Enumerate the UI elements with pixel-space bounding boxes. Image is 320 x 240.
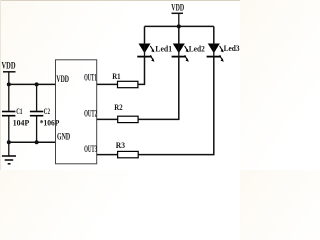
resistor R1 body bbox=[118, 81, 138, 87]
wire rail to Led1 anode bbox=[144, 26, 146, 43]
wire ground rail to IC GND pin bbox=[9, 141, 56, 143]
wire top VDD rail bbox=[145, 25, 214, 27]
svg-text:OUT2: OUT2 bbox=[84, 108, 97, 118]
wire through Led1 bbox=[144, 44, 146, 58]
wire OUT2 to R2 bbox=[97, 118, 118, 120]
svg-text:C1: C1 bbox=[16, 106, 22, 116]
page top edge line bbox=[0, 0, 240, 1]
node junction at C2 bottom bbox=[35, 140, 39, 144]
svg-text:*106P: *106P bbox=[40, 118, 60, 128]
power symbol VDD (top) bbox=[171, 3, 184, 27]
svg-text:VDD: VDD bbox=[56, 74, 69, 84]
svg-text:104P: 104P bbox=[13, 118, 29, 128]
wire C2 top lead bbox=[36, 84, 38, 110]
node junction at C1 top bbox=[7, 82, 11, 86]
Led1 emission arrow 2 bbox=[150, 55, 153, 60]
Led3 emission arrow 1 bbox=[220, 46, 223, 51]
capacitor C2 bbox=[30, 106, 60, 128]
wire OUT3 to R3 bbox=[97, 154, 118, 156]
LED Led3 cathode bar bbox=[207, 56, 221, 58]
ground bbox=[2, 142, 16, 164]
capacitor C1 bbox=[2, 106, 29, 128]
svg-text:R1: R1 bbox=[112, 71, 120, 81]
wire rail to Led2 anode bbox=[178, 26, 180, 43]
svg-text:OUT1: OUT1 bbox=[84, 73, 97, 83]
LED Led2 bbox=[172, 44, 205, 62]
capacitor C2 plates bbox=[30, 111, 43, 113]
ground stem bbox=[8, 142, 10, 156]
LED Led1 cathode bar bbox=[137, 56, 151, 58]
svg-text:Led2: Led2 bbox=[189, 44, 205, 53]
svg-text:R3: R3 bbox=[116, 140, 125, 150]
ground bars bbox=[2, 155, 16, 157]
svg-text:VDD: VDD bbox=[171, 3, 184, 13]
node junction at C1 bottom bbox=[7, 140, 11, 144]
resistor R3 bbox=[116, 140, 138, 158]
Led2 emission arrow 2 bbox=[185, 55, 188, 60]
svg-text:GND: GND bbox=[57, 132, 71, 142]
svg-text:VDD: VDD bbox=[2, 62, 16, 72]
node junction at C2 top bbox=[35, 82, 39, 86]
svg-text:OUT3: OUT3 bbox=[84, 144, 97, 154]
LED Led3 bbox=[207, 44, 240, 62]
wire VDD rail to IC VDD pin bbox=[9, 83, 56, 85]
svg-text:C2: C2 bbox=[44, 106, 50, 116]
wire R2 to Led2 bbox=[138, 57, 179, 119]
Led1 emission arrow 1 bbox=[150, 46, 153, 51]
svg-text:Led1: Led1 bbox=[155, 45, 172, 54]
wire R1 to Led1 bbox=[138, 57, 145, 84]
wire OUT1 to R1 bbox=[97, 83, 118, 85]
Led3 emission arrow 2 bbox=[220, 55, 223, 60]
page left edge line bbox=[0, 0, 1, 170]
LED Led2 anode triangle bbox=[173, 44, 185, 54]
wire through Led3 bbox=[213, 44, 215, 58]
LED Led2 cathode bar bbox=[172, 56, 186, 58]
wire through Led2 bbox=[178, 44, 180, 58]
IC U1 LED-driver box bbox=[56, 60, 98, 164]
svg-text:R2: R2 bbox=[114, 102, 122, 112]
wire rail to Led3 anode bbox=[213, 26, 215, 43]
wire C2 bottom lead bbox=[36, 116, 38, 142]
LED Led1 bbox=[137, 44, 172, 62]
wire R3 to Led3 bbox=[138, 57, 214, 155]
LED Led3 anode triangle bbox=[208, 44, 220, 54]
wire C1 top lead bbox=[8, 84, 10, 110]
Led2 emission arrow 1 bbox=[185, 46, 188, 51]
LED Led1 anode triangle bbox=[139, 44, 151, 54]
node junction VDD tap bbox=[177, 24, 181, 28]
capacitor C1 plates bbox=[2, 111, 15, 113]
resistor R3 body bbox=[118, 151, 139, 157]
resistor R2 body bbox=[118, 116, 138, 122]
svg-text:Led3: Led3 bbox=[224, 44, 240, 53]
power symbol VDD (left) bbox=[2, 62, 16, 85]
wire C1 bottom lead bbox=[8, 116, 10, 142]
resistor R2 bbox=[114, 102, 138, 123]
resistor R1 bbox=[112, 71, 138, 88]
